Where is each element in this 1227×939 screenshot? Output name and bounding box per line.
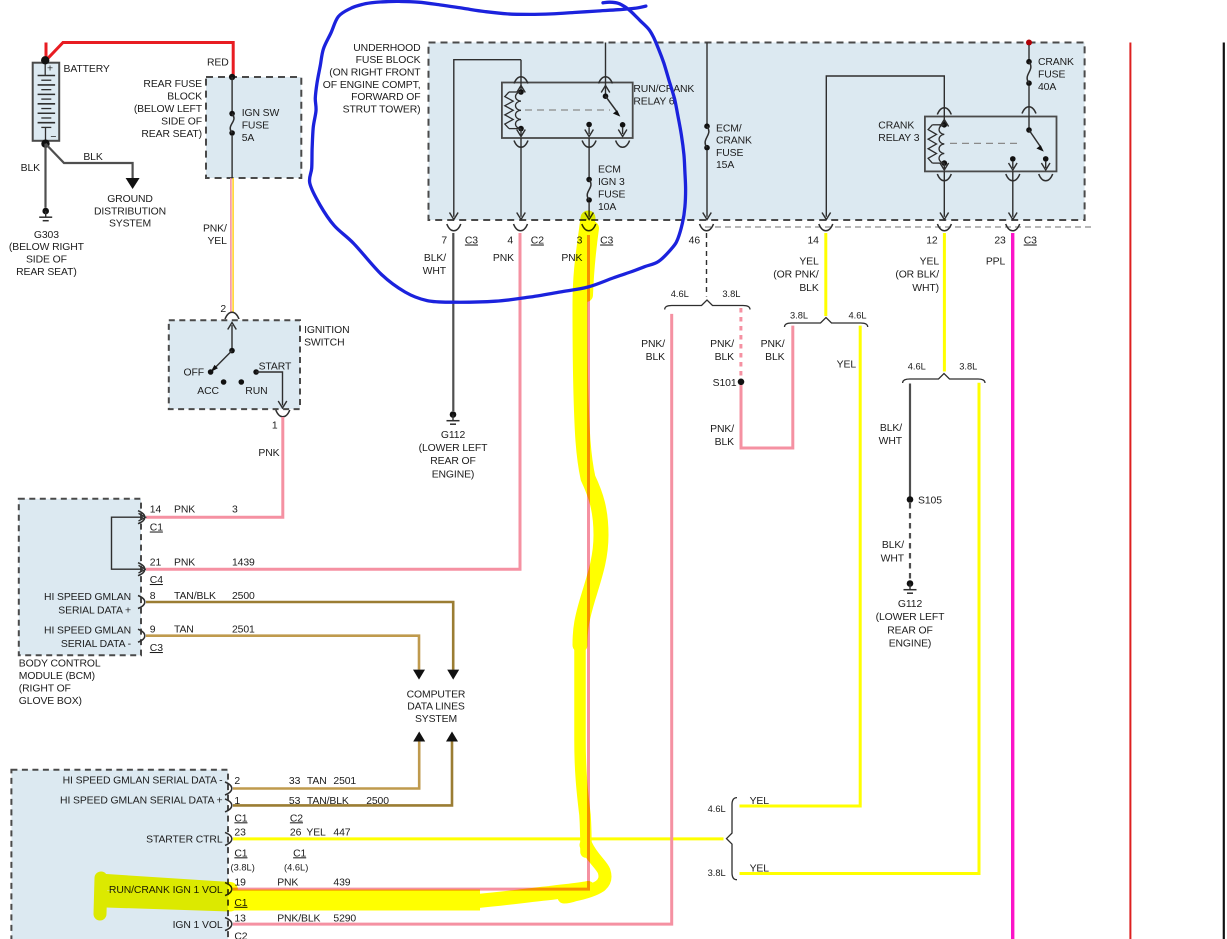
wire TAN/BLK 2500 to module pin 1 xyxy=(233,742,452,806)
wire PNK 439 module to fuse block pin 3 xyxy=(233,235,589,889)
svg-text:SYSTEM: SYSTEM xyxy=(415,714,457,725)
svg-text:REAR SEAT): REAR SEAT) xyxy=(141,129,202,140)
BCM pin 14 connector xyxy=(138,511,145,524)
svg-text:3.8L: 3.8L xyxy=(708,868,726,878)
svg-text:PNK/: PNK/ xyxy=(710,339,734,350)
svg-text:2500: 2500 xyxy=(366,796,389,807)
relay 6 switch blade xyxy=(606,96,618,112)
svg-text:YEL: YEL xyxy=(306,828,326,839)
relay 6 NO contact xyxy=(620,122,626,128)
svg-text:53: 53 xyxy=(289,796,301,807)
pin 14 connector xyxy=(819,224,833,231)
svg-text:C3: C3 xyxy=(600,236,613,247)
svg-text:WHT: WHT xyxy=(879,436,903,447)
svg-text:PNK: PNK xyxy=(174,505,195,516)
wire PNK/YEL rear fuse block to ignition switch xyxy=(230,178,232,313)
svg-text:BLK: BLK xyxy=(83,152,103,163)
svg-text:TAN: TAN xyxy=(307,776,327,787)
svg-text:BODY CONTROL: BODY CONTROL xyxy=(19,658,101,669)
engine control module (dashed box) xyxy=(11,770,228,939)
svg-text:HI SPEED GMLAN SERIAL DATA +: HI SPEED GMLAN SERIAL DATA + xyxy=(60,795,222,806)
svg-text:YEL: YEL xyxy=(750,864,770,875)
svg-text:BLK: BLK xyxy=(715,437,735,448)
engine split brace (pin 14) xyxy=(785,318,868,328)
svg-text:8: 8 xyxy=(150,591,156,602)
svg-text:ENGINE): ENGINE) xyxy=(889,639,932,650)
relay 3 NC contact to pin 23 xyxy=(1010,156,1016,162)
svg-text:BLK/: BLK/ xyxy=(424,253,446,264)
splice S101 xyxy=(738,379,745,386)
svg-text:HI SPEED GMLAN SERIAL DATA -: HI SPEED GMLAN SERIAL DATA - xyxy=(63,776,223,787)
svg-text:PNK/: PNK/ xyxy=(710,424,734,435)
svg-text:ENGINE): ENGINE) xyxy=(432,469,475,480)
wire BLK battery to G303 xyxy=(44,144,46,208)
svg-text:OFF: OFF xyxy=(184,368,204,379)
svg-text:BATTERY: BATTERY xyxy=(64,64,110,75)
module pin 2 connector xyxy=(225,782,232,795)
svg-text:C2: C2 xyxy=(234,931,247,939)
svg-text:IGN 1 VOL: IGN 1 VOL xyxy=(173,920,223,931)
svg-text:15A: 15A xyxy=(716,160,734,171)
engine split brace (pin 46) xyxy=(665,300,750,310)
svg-text:(4.6L): (4.6L) xyxy=(284,863,308,873)
svg-text:33: 33 xyxy=(289,776,301,787)
wire PNK/BLK 5290 module to engine split xyxy=(233,314,672,924)
svg-text:HI SPEED GMLAN: HI SPEED GMLAN xyxy=(44,592,131,603)
module pin 23 connector xyxy=(225,832,232,845)
svg-text:MODULE (BCM): MODULE (BCM) xyxy=(19,671,95,682)
svg-text:DISTRIBUTION: DISTRIBUTION xyxy=(94,206,166,217)
pin 2 connector (ignition switch) xyxy=(225,312,239,319)
wire TAN/BLK 2500 BCM to computer data lines xyxy=(146,602,453,670)
relay 6 NC contact to ECM IGN3 fuse xyxy=(586,122,592,128)
svg-text:23: 23 xyxy=(234,828,246,839)
svg-text:C1: C1 xyxy=(293,848,306,859)
svg-text:ACC: ACC xyxy=(197,386,219,397)
BCM pin 21 connector xyxy=(138,563,145,576)
svg-text:COMPUTER: COMPUTER xyxy=(407,689,466,700)
svg-text:439: 439 xyxy=(333,877,350,888)
red vertical line (adjacent circuit) xyxy=(1129,43,1131,939)
underhood fuse block sub-connector dashed line xyxy=(705,226,1092,228)
svg-text:WHT: WHT xyxy=(423,266,447,277)
svg-text:REAR OF: REAR OF xyxy=(430,456,476,467)
svg-text:CRANK: CRANK xyxy=(1038,57,1074,68)
arrow to computer data lines (TAN/BLK) xyxy=(447,670,459,680)
svg-text:IGN SW: IGN SW xyxy=(242,108,280,119)
BCM pin 9 connector xyxy=(138,629,145,642)
wire YEL 3.8L branch xyxy=(740,383,980,874)
relay 3 internal dashed line xyxy=(950,142,1017,144)
svg-text:GROUND: GROUND xyxy=(107,194,153,205)
svg-text:FUSE: FUSE xyxy=(242,121,269,132)
svg-text:BLK/: BLK/ xyxy=(882,540,904,551)
wire PNK/BLK dashed 3.8L to S101 xyxy=(739,308,742,378)
svg-text:ECM: ECM xyxy=(598,165,621,176)
svg-text:CRANK: CRANK xyxy=(878,120,914,131)
svg-text:G112: G112 xyxy=(898,599,923,610)
svg-text:RED: RED xyxy=(207,58,229,69)
wire dashed pin 46 to engine split xyxy=(706,233,708,297)
svg-text:RUN/CRANK: RUN/CRANK xyxy=(633,84,694,95)
svg-text:C2: C2 xyxy=(290,813,303,824)
BCM (dashed box) xyxy=(19,499,141,656)
wire BLK/WHT pin 7 to G112 xyxy=(452,233,454,411)
svg-text:STRUT TOWER): STRUT TOWER) xyxy=(343,104,421,115)
fuse CRANK FUSE 40A xyxy=(1026,40,1032,46)
svg-text:2500: 2500 xyxy=(232,591,255,602)
wire YEL pin 14 to engine split xyxy=(824,233,827,316)
svg-text:26: 26 xyxy=(290,828,302,839)
svg-text:HI SPEED GMLAN: HI SPEED GMLAN xyxy=(44,626,131,637)
svg-text:WHT: WHT xyxy=(881,554,905,565)
svg-text:BLK: BLK xyxy=(799,283,819,294)
pin 23 connector xyxy=(1006,224,1020,231)
wire PNK ignition switch to BCM pin 14 xyxy=(146,417,283,517)
svg-text:SIDE OF: SIDE OF xyxy=(161,116,202,127)
svg-text:FUSE: FUSE xyxy=(716,148,743,159)
wire TAN 2501 BCM to computer data lines xyxy=(146,636,419,670)
wire BLK branch to ground distribution xyxy=(46,144,133,178)
svg-text:PNK: PNK xyxy=(174,558,195,569)
svg-text:YEL: YEL xyxy=(799,256,819,267)
wire PPL pin 23 xyxy=(1011,233,1014,939)
svg-text:4.6L: 4.6L xyxy=(671,289,689,299)
svg-text:SERIAL DATA -: SERIAL DATA - xyxy=(61,639,131,650)
svg-text:14: 14 xyxy=(807,236,819,247)
ignition switch START output wire xyxy=(256,372,282,406)
svg-text:PNK/: PNK/ xyxy=(641,339,665,350)
svg-text:3: 3 xyxy=(232,505,238,516)
ignition switch contacts xyxy=(231,325,233,351)
relay 3 switch blade xyxy=(1029,130,1041,148)
svg-text:C3: C3 xyxy=(1024,236,1037,247)
svg-text:WHT): WHT) xyxy=(912,283,939,294)
svg-text:G303: G303 xyxy=(34,230,59,241)
svg-text:BLK: BLK xyxy=(715,352,735,363)
wire PNK pin 4 to BCM pin 21 xyxy=(146,233,520,569)
svg-text:BLK: BLK xyxy=(646,352,666,363)
svg-text:C2: C2 xyxy=(531,236,544,247)
svg-text:46: 46 xyxy=(689,236,701,247)
wire YEL 447 starter ctrl xyxy=(233,837,724,840)
svg-text:BLK: BLK xyxy=(21,163,41,174)
svg-text:4.6L: 4.6L xyxy=(708,804,726,814)
svg-text:1439: 1439 xyxy=(232,558,255,569)
svg-text:IGNITION: IGNITION xyxy=(304,325,349,336)
pin 46 connector xyxy=(700,224,714,231)
junction dot rear fuse block feed xyxy=(229,74,235,80)
svg-text:BLK/: BLK/ xyxy=(880,423,902,434)
svg-text:YEL: YEL xyxy=(837,360,857,371)
svg-text:(LOWER LEFT: (LOWER LEFT xyxy=(876,612,946,623)
pin 12 connector xyxy=(937,224,951,231)
relay 6 coil xyxy=(520,60,522,92)
svg-text:(OR BLK/: (OR BLK/ xyxy=(895,270,939,281)
svg-text:REAR SEAT): REAR SEAT) xyxy=(16,267,77,278)
svg-text:10A: 10A xyxy=(598,202,616,213)
svg-text:S101: S101 xyxy=(713,378,737,389)
fuse IGN SW FUSE 5A xyxy=(231,77,233,111)
crank relay coil output to pin 12 xyxy=(943,172,945,217)
arrow from computer data lines (TAN/BLK) xyxy=(446,732,458,742)
svg-text:1: 1 xyxy=(234,796,240,807)
pin 4 connector xyxy=(514,224,528,231)
relay 6 switch common xyxy=(605,43,607,97)
svg-text:TAN: TAN xyxy=(174,625,194,636)
svg-text:4.6L: 4.6L xyxy=(848,310,866,320)
battery B+ RED wire xyxy=(46,43,233,78)
svg-text:5A: 5A xyxy=(242,133,255,144)
svg-text:(3.8L): (3.8L) xyxy=(231,863,255,873)
svg-text:C3: C3 xyxy=(150,643,163,654)
svg-text:IGN 3: IGN 3 xyxy=(598,177,625,188)
svg-text:GLOVE BOX): GLOVE BOX) xyxy=(19,696,82,707)
svg-text:STARTER CTRL: STARTER CTRL xyxy=(146,835,223,846)
svg-text:RELAY 3: RELAY 3 xyxy=(878,133,919,144)
svg-text:(BELOW RIGHT: (BELOW RIGHT xyxy=(9,242,85,253)
fuse ECM/CRANK FUSE 15A xyxy=(706,43,708,125)
svg-text:BLK: BLK xyxy=(765,352,785,363)
svg-text:REAR OF: REAR OF xyxy=(887,625,933,636)
rear fuse block (dashed box) xyxy=(206,77,301,178)
wire TAN 2501 to module pin 2 xyxy=(233,742,419,789)
svg-text:YEL: YEL xyxy=(750,796,770,807)
svg-text:7: 7 xyxy=(441,236,447,247)
crank relay coil xyxy=(942,122,948,128)
wire fuse block feed to pin 7 xyxy=(454,60,521,217)
svg-text:4.6L: 4.6L xyxy=(908,362,926,372)
svg-text:14: 14 xyxy=(150,505,162,516)
svg-text:12: 12 xyxy=(926,236,938,247)
blue pen circle around fuse block xyxy=(309,1,685,302)
svg-text:C1: C1 xyxy=(234,813,247,824)
svg-text:ECM/: ECM/ xyxy=(716,124,742,135)
splice S105 xyxy=(907,496,914,503)
wire fuse block feed to crank relay coil xyxy=(826,76,944,217)
svg-text:3.8L: 3.8L xyxy=(959,362,977,372)
battery xyxy=(33,63,60,141)
svg-text:447: 447 xyxy=(333,828,350,839)
svg-text:TAN/BLK: TAN/BLK xyxy=(307,796,349,807)
svg-text:SIDE OF: SIDE OF xyxy=(26,255,67,266)
pin 7 connector xyxy=(447,224,461,231)
wire YEL 4.6L branch xyxy=(740,326,861,806)
wire PNK/BLK S101 to engine split (pin14 brace) xyxy=(741,326,793,448)
yellow highlighter stroke (vertical + horizontal) xyxy=(100,218,605,914)
wire BLK/WHT to S105 xyxy=(909,384,911,497)
svg-text:YEL: YEL xyxy=(920,256,940,267)
svg-text:4: 4 xyxy=(507,236,513,247)
svg-text:SYSTEM: SYSTEM xyxy=(109,219,151,230)
svg-text:UNDERHOOD: UNDERHOOD xyxy=(353,43,420,54)
svg-text:(BELOW LEFT: (BELOW LEFT xyxy=(134,104,203,115)
svg-text:−: − xyxy=(50,132,56,143)
svg-text:START: START xyxy=(259,362,292,373)
relay RUN/CRANK RELAY 6 box xyxy=(502,83,633,139)
svg-text:PNK: PNK xyxy=(277,877,298,888)
engine split brace (starter ctrl) xyxy=(727,798,738,880)
relay 3 NO contact xyxy=(1043,156,1049,162)
svg-text:3.8L: 3.8L xyxy=(790,310,808,320)
svg-text:S105: S105 xyxy=(918,496,942,507)
engine split brace (pin 12) xyxy=(903,374,985,384)
ground G112 (left) xyxy=(450,411,457,418)
fuse ECM IGN 3 FUSE 10A xyxy=(586,177,592,183)
svg-text:BLOCK: BLOCK xyxy=(167,91,202,102)
svg-text:+: + xyxy=(47,64,53,75)
relay 6 coil output to pin 4 xyxy=(514,141,528,148)
svg-text:PNK/: PNK/ xyxy=(761,339,785,350)
svg-text:PNK: PNK xyxy=(258,448,279,459)
svg-text:40A: 40A xyxy=(1038,82,1056,93)
ground distribution arrow xyxy=(126,178,140,189)
svg-text:DATA LINES: DATA LINES xyxy=(407,702,465,713)
svg-text:PNK: PNK xyxy=(493,253,514,264)
svg-text:1: 1 xyxy=(272,421,278,432)
svg-text:REAR FUSE: REAR FUSE xyxy=(143,79,202,90)
module pin 1 connector xyxy=(225,799,232,812)
svg-text:RELAY 6: RELAY 6 xyxy=(633,96,674,107)
svg-text:PPL: PPL xyxy=(986,256,1006,267)
svg-text:C1: C1 xyxy=(150,523,163,534)
svg-text:FORWARD OF: FORWARD OF xyxy=(351,92,420,103)
battery negative terminal dot xyxy=(41,140,49,148)
svg-text:SWITCH: SWITCH xyxy=(304,337,344,348)
ignition switch (dashed box) xyxy=(169,320,300,409)
BCM pin 8 connector xyxy=(138,596,145,609)
pin 1 connector (ignition switch) xyxy=(276,410,290,417)
pin 3 connector xyxy=(582,224,596,231)
svg-text:23: 23 xyxy=(994,236,1006,247)
relay 6 internal dashed line xyxy=(525,109,610,111)
svg-text:(OR PNK/: (OR PNK/ xyxy=(773,270,819,281)
wire YEL pin 12 to engine split xyxy=(943,233,946,372)
svg-text:9: 9 xyxy=(150,625,156,636)
svg-text:2: 2 xyxy=(234,776,240,787)
wire BLK/WHT dashed S105 to G112 xyxy=(909,503,911,580)
svg-text:21: 21 xyxy=(150,558,162,569)
relay CRANK RELAY 3 box xyxy=(925,117,1057,172)
arrow from computer data lines (TAN) xyxy=(413,732,425,742)
arrow to computer data lines (TAN) xyxy=(413,670,425,680)
svg-text:2: 2 xyxy=(220,304,226,315)
BCM internal jumper pins 14-21 xyxy=(112,517,144,569)
ground G112 (right) xyxy=(907,580,914,587)
svg-text:FUSE: FUSE xyxy=(1038,70,1065,81)
underhood fuse block (dashed box) xyxy=(429,43,1085,221)
svg-text:FUSE: FUSE xyxy=(598,190,625,201)
ground G303 xyxy=(42,208,49,215)
svg-text:PNK/: PNK/ xyxy=(203,224,227,235)
svg-text:YEL: YEL xyxy=(207,236,227,247)
svg-text:3.8L: 3.8L xyxy=(722,289,740,299)
module pin 13 connector xyxy=(225,918,232,931)
svg-text:RUN: RUN xyxy=(245,386,267,397)
svg-text:CRANK: CRANK xyxy=(716,136,752,147)
svg-text:C3: C3 xyxy=(465,236,478,247)
battery positive terminal dot xyxy=(41,56,49,64)
black vertical line (page edge) xyxy=(1223,43,1225,939)
svg-text:2501: 2501 xyxy=(232,625,255,636)
svg-text:TAN/BLK: TAN/BLK xyxy=(174,591,216,602)
module pin 19 connector xyxy=(225,883,232,896)
svg-text:FUSE BLOCK: FUSE BLOCK xyxy=(356,55,421,66)
svg-text:SERIAL DATA +: SERIAL DATA + xyxy=(58,605,131,616)
svg-text:(RIGHT OF: (RIGHT OF xyxy=(19,683,71,694)
svg-text:C1: C1 xyxy=(234,848,247,859)
svg-text:2501: 2501 xyxy=(333,776,356,787)
svg-text:C4: C4 xyxy=(150,575,163,586)
svg-text:OF ENGINE COMPT,: OF ENGINE COMPT, xyxy=(323,80,421,91)
svg-text:(LOWER LEFT: (LOWER LEFT xyxy=(419,443,489,454)
relay 3 switch common xyxy=(1022,107,1036,114)
svg-text:(ON RIGHT FRONT: (ON RIGHT FRONT xyxy=(329,68,421,79)
svg-text:G112: G112 xyxy=(441,430,466,441)
